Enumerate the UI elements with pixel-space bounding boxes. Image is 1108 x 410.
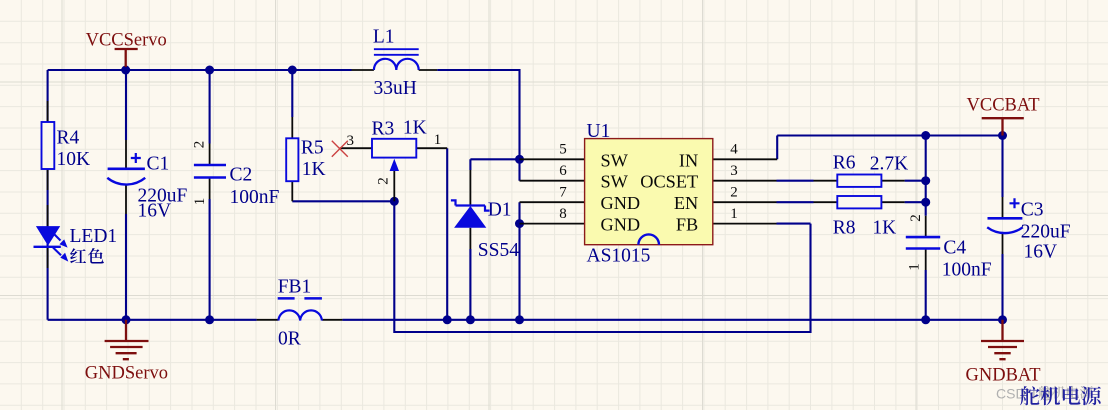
svg-text:LED1: LED1 <box>70 226 118 247</box>
wire OCSET to R6 <box>777 180 926 182</box>
svg-text:6: 6 <box>559 163 567 179</box>
svg-text:2: 2 <box>192 141 208 149</box>
pin LED1 anode/cathode stubs <box>47 205 49 268</box>
ground GNDServo symbol <box>105 320 149 359</box>
capacitor C3 bottom arc plate <box>987 227 1023 233</box>
svg-text:1: 1 <box>907 263 923 271</box>
label LED1 color hongse char2 <box>88 248 104 263</box>
svg-text:16V: 16V <box>138 201 172 222</box>
junction R3 pin1 on ground bus <box>443 315 452 324</box>
watermark gray char 机 <box>1052 386 1065 399</box>
LED1 emission arrows <box>53 234 61 256</box>
pin R3-2 wiper shaft <box>393 171 395 201</box>
resistor R8 body <box>837 196 881 208</box>
pin R5-1 and R5-2 <box>291 117 293 201</box>
wire R5 bottom to divider node <box>292 200 394 202</box>
wire VCCBAT vertical to C4 <box>925 136 927 320</box>
wire C1 branch upper <box>125 70 127 140</box>
inductor L1 winding arcs <box>374 59 419 70</box>
svg-text:L1: L1 <box>373 27 395 48</box>
svg-text:OCSET: OCSET <box>640 172 698 192</box>
ground GNDBAT symbol <box>981 320 1024 359</box>
capacitor C1 bottom arc plate <box>107 178 145 185</box>
svg-text:FB: FB <box>676 215 698 235</box>
schematic title char 舵 <box>1020 386 1040 405</box>
svg-text:C2: C2 <box>230 165 253 186</box>
svg-text:SW: SW <box>601 150 629 170</box>
wire ground bus right of FB1 <box>342 319 1002 321</box>
junction R5 on top rail <box>288 66 297 75</box>
capacitor C3 plus sign <box>1010 198 1020 208</box>
svg-text:8: 8 <box>559 206 567 222</box>
pin C1-1 and C1-2 <box>125 140 127 214</box>
power VCCServo bar <box>115 49 138 67</box>
pin D1 cathode and anode <box>469 170 471 249</box>
resistor R4 body <box>42 122 55 169</box>
wire C3 branch <box>1001 136 1003 320</box>
junction C1/GNDServo on ground bus <box>122 315 131 324</box>
svg-text:2: 2 <box>730 185 738 201</box>
watermark gray char 电 <box>1067 386 1079 398</box>
junction D1 anode on ground bus <box>466 315 475 324</box>
wire D1 anode to ground bus <box>469 249 471 320</box>
svg-text:FB1: FB1 <box>278 277 312 298</box>
svg-text:SW: SW <box>601 172 629 192</box>
svg-text:0R: 0R <box>278 328 301 349</box>
svg-text:VCCServo: VCCServo <box>86 31 167 51</box>
capacitor C1 plus sign <box>131 153 141 163</box>
pin R6-1 and R6-2 <box>814 180 905 182</box>
inductor L1 core lines <box>374 49 419 55</box>
svg-text:7: 7 <box>559 185 567 201</box>
wire R5 branch upper <box>291 70 293 117</box>
wire C1 branch lower <box>125 214 127 320</box>
svg-text:33uH: 33uH <box>374 78 417 99</box>
junction C2 on ground bus <box>205 315 214 324</box>
svg-text:VCCBAT: VCCBAT <box>967 96 1040 116</box>
wire IN rail to VCCBAT <box>777 136 1002 160</box>
svg-text:3: 3 <box>730 163 738 179</box>
power VCCBAT bar <box>982 118 1024 135</box>
svg-text:220uF: 220uF <box>1021 222 1071 243</box>
svg-text:GND: GND <box>601 193 641 213</box>
junction SW node pin5/D1 <box>515 155 524 164</box>
schematic title char 源 <box>1082 386 1101 405</box>
wire C2 branch upper <box>209 70 211 144</box>
pin R8-1 and R8-2 <box>814 201 905 203</box>
junction GND vertical on ground bus <box>515 315 524 324</box>
junction C2 on top rail <box>205 66 214 75</box>
diode D1 triangle <box>454 206 486 228</box>
svg-text:5: 5 <box>559 142 567 158</box>
pin C2-1 and C2-2 <box>209 144 211 200</box>
svg-text:GNDBAT: GNDBAT <box>966 366 1041 386</box>
svg-text:R4: R4 <box>57 128 80 149</box>
no-ERC marker on R3 pin3 <box>332 141 348 157</box>
svg-text:2: 2 <box>375 177 391 185</box>
pin C3-1 and C3-2 <box>1002 197 1004 254</box>
watermark gray char 源 <box>1080 386 1093 399</box>
wire VCCServo top rail <box>48 69 352 71</box>
svg-text:D1: D1 <box>488 200 512 221</box>
wire C2 branch lower <box>209 199 211 320</box>
pin U1-7 <box>520 201 585 203</box>
wire D1 cathode to SW node <box>470 159 519 170</box>
svg-text:3: 3 <box>347 133 355 149</box>
junction C3/GNDBAT on ground bus <box>998 315 1007 324</box>
junction divider node (R5/R3 wiper/FB) <box>390 197 399 206</box>
svg-text:1: 1 <box>192 198 208 206</box>
schematic title char 机 <box>1041 386 1060 405</box>
svg-text:16V: 16V <box>1024 242 1058 263</box>
wire GND pins vertical <box>518 202 520 320</box>
pin L1-1 and L1-2 <box>352 69 438 71</box>
junction VCCServo/C1 on top rail <box>121 66 130 75</box>
pin U1-8 <box>520 223 585 225</box>
svg-text:2: 2 <box>908 214 924 222</box>
wire R3 pin1 down to ground bus <box>446 148 448 320</box>
pin R4-1 and R4-2 <box>47 101 49 190</box>
svg-text:100nF: 100nF <box>942 260 992 281</box>
svg-text:1K: 1K <box>403 118 427 139</box>
junction C4 on ground bus <box>921 315 930 324</box>
U1 bottom notch arc <box>638 234 659 244</box>
capacitor C3 top plate <box>988 217 1023 220</box>
svg-text:1: 1 <box>730 206 738 222</box>
pin U1-6 <box>520 180 585 182</box>
svg-text:IN: IN <box>679 150 698 170</box>
diode D1 schottky cathode bar <box>451 200 490 210</box>
junction GND pins 7-8 <box>515 219 524 228</box>
svg-text:1: 1 <box>434 132 442 148</box>
svg-text:R6: R6 <box>833 152 856 173</box>
wire ground bus left of FB1 <box>48 319 257 321</box>
svg-text:R5: R5 <box>301 138 324 159</box>
wire left branch vertical (R4/LED) <box>47 70 49 320</box>
junction R8 right <box>921 198 930 207</box>
wire L1 output to SW node <box>437 70 519 181</box>
capacitor C2 plates <box>194 165 226 178</box>
svg-text:C1: C1 <box>147 154 170 175</box>
svg-text:GND: GND <box>601 215 641 235</box>
svg-text:U1: U1 <box>587 121 611 142</box>
junction C3/VCCBAT on rail <box>998 131 1007 140</box>
ferrite bead FB1 arcs <box>278 310 322 320</box>
pin R3-1 right <box>416 147 447 149</box>
LED1 cathode bar <box>34 246 61 248</box>
pin R3-3 left <box>340 147 372 149</box>
svg-text:100nF: 100nF <box>230 187 280 208</box>
svg-text:GNDServo: GNDServo <box>85 364 168 384</box>
label LED1 color hongse char1 <box>70 248 86 263</box>
svg-text:1K: 1K <box>872 218 896 239</box>
svg-text:4: 4 <box>730 142 738 158</box>
svg-text:2.7K: 2.7K <box>870 154 908 175</box>
svg-text:1K: 1K <box>302 159 326 180</box>
pin U1-3 <box>713 180 777 182</box>
svg-text:10K: 10K <box>57 149 91 170</box>
pin C4-2 and C4-1 <box>925 216 927 270</box>
LED1 triangle <box>36 226 60 246</box>
pin U1-4 <box>713 158 777 160</box>
junction C4 branch on VCCBAT rail <box>921 131 930 140</box>
resistor R5 body <box>286 138 298 181</box>
wire pin1 FB horizontal <box>777 223 811 225</box>
pin U1-5 <box>520 158 585 160</box>
wire FB loop (divider to pin1) <box>394 201 810 332</box>
svg-text:SS54: SS54 <box>478 240 519 261</box>
watermark gray char 舵 <box>1038 386 1051 399</box>
capacitor C4 plates <box>906 237 940 248</box>
svg-text:R3: R3 <box>372 119 395 140</box>
op-amp/regulator U1 body <box>585 139 713 245</box>
schematic title char 电 <box>1063 386 1081 405</box>
wire EN to R8 <box>777 201 926 203</box>
potentiometer R3 wiper arrowhead <box>390 159 399 171</box>
resistor R6 body <box>837 175 881 187</box>
ferrite bead FB1 dashes <box>278 297 322 300</box>
pin U1-1 <box>713 223 777 225</box>
svg-text:AS1015: AS1015 <box>587 246 651 267</box>
svg-text:C4: C4 <box>943 238 966 259</box>
potentiometer R3 body <box>372 139 416 158</box>
svg-text:C3: C3 <box>1021 200 1044 221</box>
pin U1-2 <box>713 201 777 203</box>
pin FB1-1 and FB1-2 <box>257 319 343 321</box>
capacitor C1 top plate <box>108 168 145 171</box>
svg-text:EN: EN <box>674 193 698 213</box>
junction R6 right <box>921 176 930 185</box>
svg-text:R8: R8 <box>833 218 856 239</box>
